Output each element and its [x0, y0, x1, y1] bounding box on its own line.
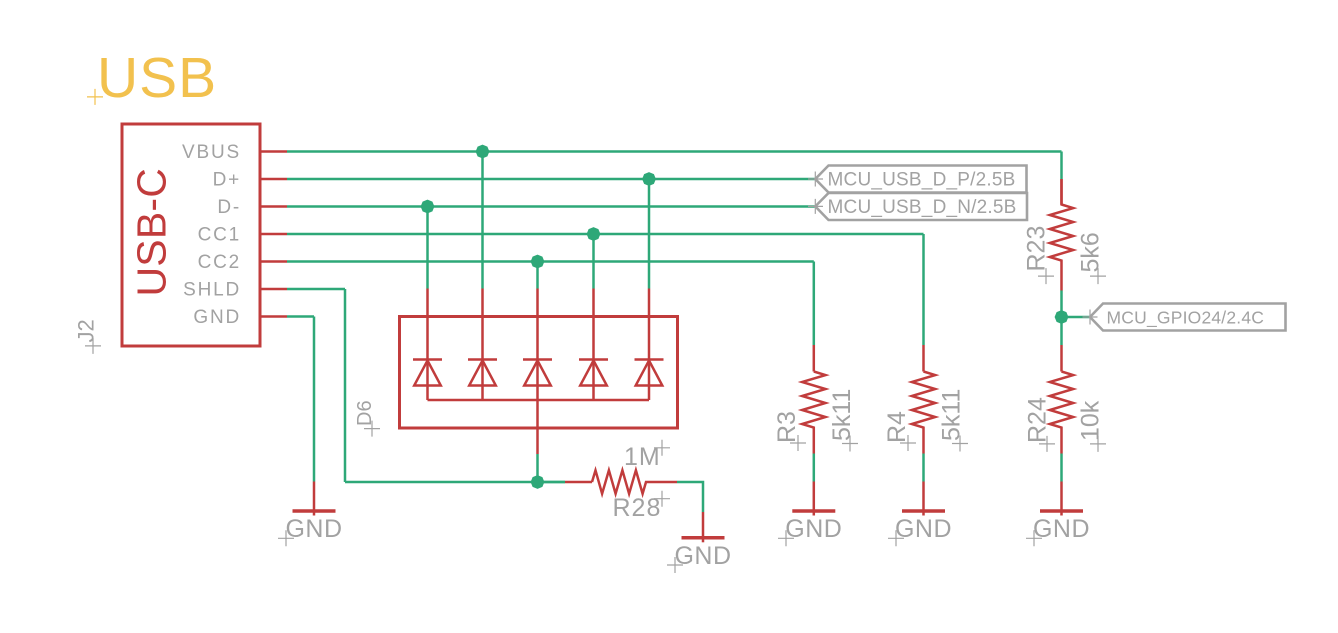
resistor R4 value 5k11: [938, 389, 969, 452]
junction dot CC1: [587, 227, 601, 241]
connector J2 box: [122, 124, 260, 346]
wire SHLD bottom to junction: [345, 481, 538, 484]
pin VBUS: [182, 142, 287, 163]
svg-text:10k: 10k: [1077, 400, 1105, 441]
wire R24 bottom to GND: [1060, 454, 1063, 482]
wire junction to GPIO flag: [1062, 316, 1091, 319]
resistor R28: [538, 470, 678, 493]
resistor R4: [912, 345, 935, 454]
svg-text:VBUS: VBUS: [182, 142, 241, 163]
wire D- to flag: [287, 205, 816, 208]
junction dot VBUS: [476, 145, 490, 159]
GND symbol R4: [888, 482, 952, 547]
wire drop VBUS to diode 2: [481, 152, 484, 289]
svg-text:D+: D+: [213, 170, 241, 191]
svg-text:MCU_USB_D_P/2.5B: MCU_USB_D_P/2.5B: [828, 170, 1016, 191]
svg-text:J2: J2: [74, 319, 99, 342]
resistor R3: [802, 345, 825, 454]
resistor R24 name: [1024, 397, 1056, 452]
svg-text:CC1: CC1: [198, 225, 241, 246]
svg-text:GND: GND: [285, 515, 342, 543]
wire GND pin down: [313, 317, 316, 482]
diode 2: [468, 289, 497, 401]
svg-text:SHLD: SHLD: [183, 280, 241, 301]
pin SHLD: [183, 280, 287, 301]
wire drop CC2 to diode 3: [536, 262, 539, 289]
wire drop D- to diode 1: [426, 207, 429, 289]
diode 4: [579, 289, 608, 401]
wire CC2 horizontal: [287, 260, 814, 263]
svg-text:5k11: 5k11: [938, 389, 966, 441]
wire CC1 down to R4: [922, 234, 925, 345]
diode common pin down: [536, 400, 539, 454]
wire drop CC1 to diode 4: [592, 234, 595, 289]
wire VBUS horizontal: [287, 150, 1062, 153]
wire GND pin horizontal: [287, 315, 314, 318]
resistor R3 value 5k11: [828, 389, 858, 452]
wire R28 to GND corner: [677, 482, 703, 512]
net flag MCU_GPIO24/2.4C: [1083, 304, 1286, 331]
svg-text:5k11: 5k11: [828, 389, 856, 441]
resistor R23 name: [1023, 226, 1055, 284]
junction dot R28 node: [531, 475, 545, 489]
pin CC2: [198, 252, 287, 273]
diode 3: [523, 289, 552, 401]
wire CC1 horizontal: [287, 233, 924, 236]
resistor R3 name: [773, 411, 806, 451]
junction dot D+: [642, 172, 656, 186]
diode array D6 box: [400, 317, 678, 429]
junction dot D-: [421, 200, 435, 214]
resistor R23 value 5k6: [1077, 232, 1107, 284]
net flag MCU_USB_D_N/2.5B: [808, 193, 1027, 220]
svg-text:USB-C: USB-C: [129, 168, 175, 297]
diode 1: [413, 289, 442, 401]
wire D+ to flag: [287, 178, 816, 181]
svg-text:5k6: 5k6: [1077, 232, 1105, 272]
junction dot CC2: [531, 255, 545, 269]
GND symbol left (connector GND pin): [278, 482, 343, 547]
svg-text:R3: R3: [773, 411, 801, 443]
svg-text:R23: R23: [1023, 226, 1051, 272]
wire R3 bottom to GND: [813, 454, 816, 482]
resistor R28 value 1M: [624, 440, 670, 471]
svg-text:GND: GND: [674, 542, 731, 570]
wire SHLD horizontal: [287, 288, 345, 291]
diode array D6 name label: [354, 400, 380, 436]
resistor R4 name: [883, 411, 916, 451]
resistor R24: [1050, 345, 1073, 454]
pin D+: [213, 170, 287, 191]
wire SHLD down: [344, 289, 347, 482]
GND symbol R28: [667, 512, 732, 573]
svg-text:MCU_USB_D_N/2.5B: MCU_USB_D_N/2.5B: [828, 197, 1017, 218]
resistor R24 value 10k: [1077, 400, 1107, 452]
wire drop D+ to diode 5: [648, 179, 651, 289]
svg-text:USB: USB: [97, 46, 217, 110]
wire R23 bottom to junction: [1060, 291, 1063, 346]
sheet title USB: [87, 46, 217, 110]
junction dot GPIO: [1055, 310, 1069, 324]
wire CC2 down to R3: [813, 262, 816, 346]
GND symbol R24: [1026, 482, 1090, 547]
resistor R28 name: [613, 491, 671, 522]
net flag MCU_USB_D_P/2.5B: [808, 166, 1027, 193]
svg-text:D6: D6: [354, 400, 376, 426]
pin D-: [217, 197, 287, 218]
pin CC1: [198, 225, 287, 246]
svg-text:MCU_GPIO24/2.4C: MCU_GPIO24/2.4C: [1107, 308, 1265, 329]
svg-text:GND: GND: [193, 307, 241, 328]
GND symbol R3: [778, 482, 842, 547]
diode D6 anode bus: [428, 399, 650, 402]
wire junction to R28: [538, 481, 566, 484]
wire VBUS corner down to R23: [1060, 152, 1063, 180]
wire diode common to junction: [536, 454, 539, 482]
svg-text:D-: D-: [217, 197, 241, 218]
diode 5: [635, 289, 664, 401]
lead R23 top red: [1060, 179, 1063, 206]
resistor R23: [1050, 179, 1073, 291]
pin GND: [193, 307, 287, 328]
svg-text:R4: R4: [883, 411, 911, 443]
wire R4 bottom to GND: [922, 454, 925, 482]
svg-text:CC2: CC2: [198, 252, 241, 273]
connector J2 name label: [74, 319, 102, 354]
